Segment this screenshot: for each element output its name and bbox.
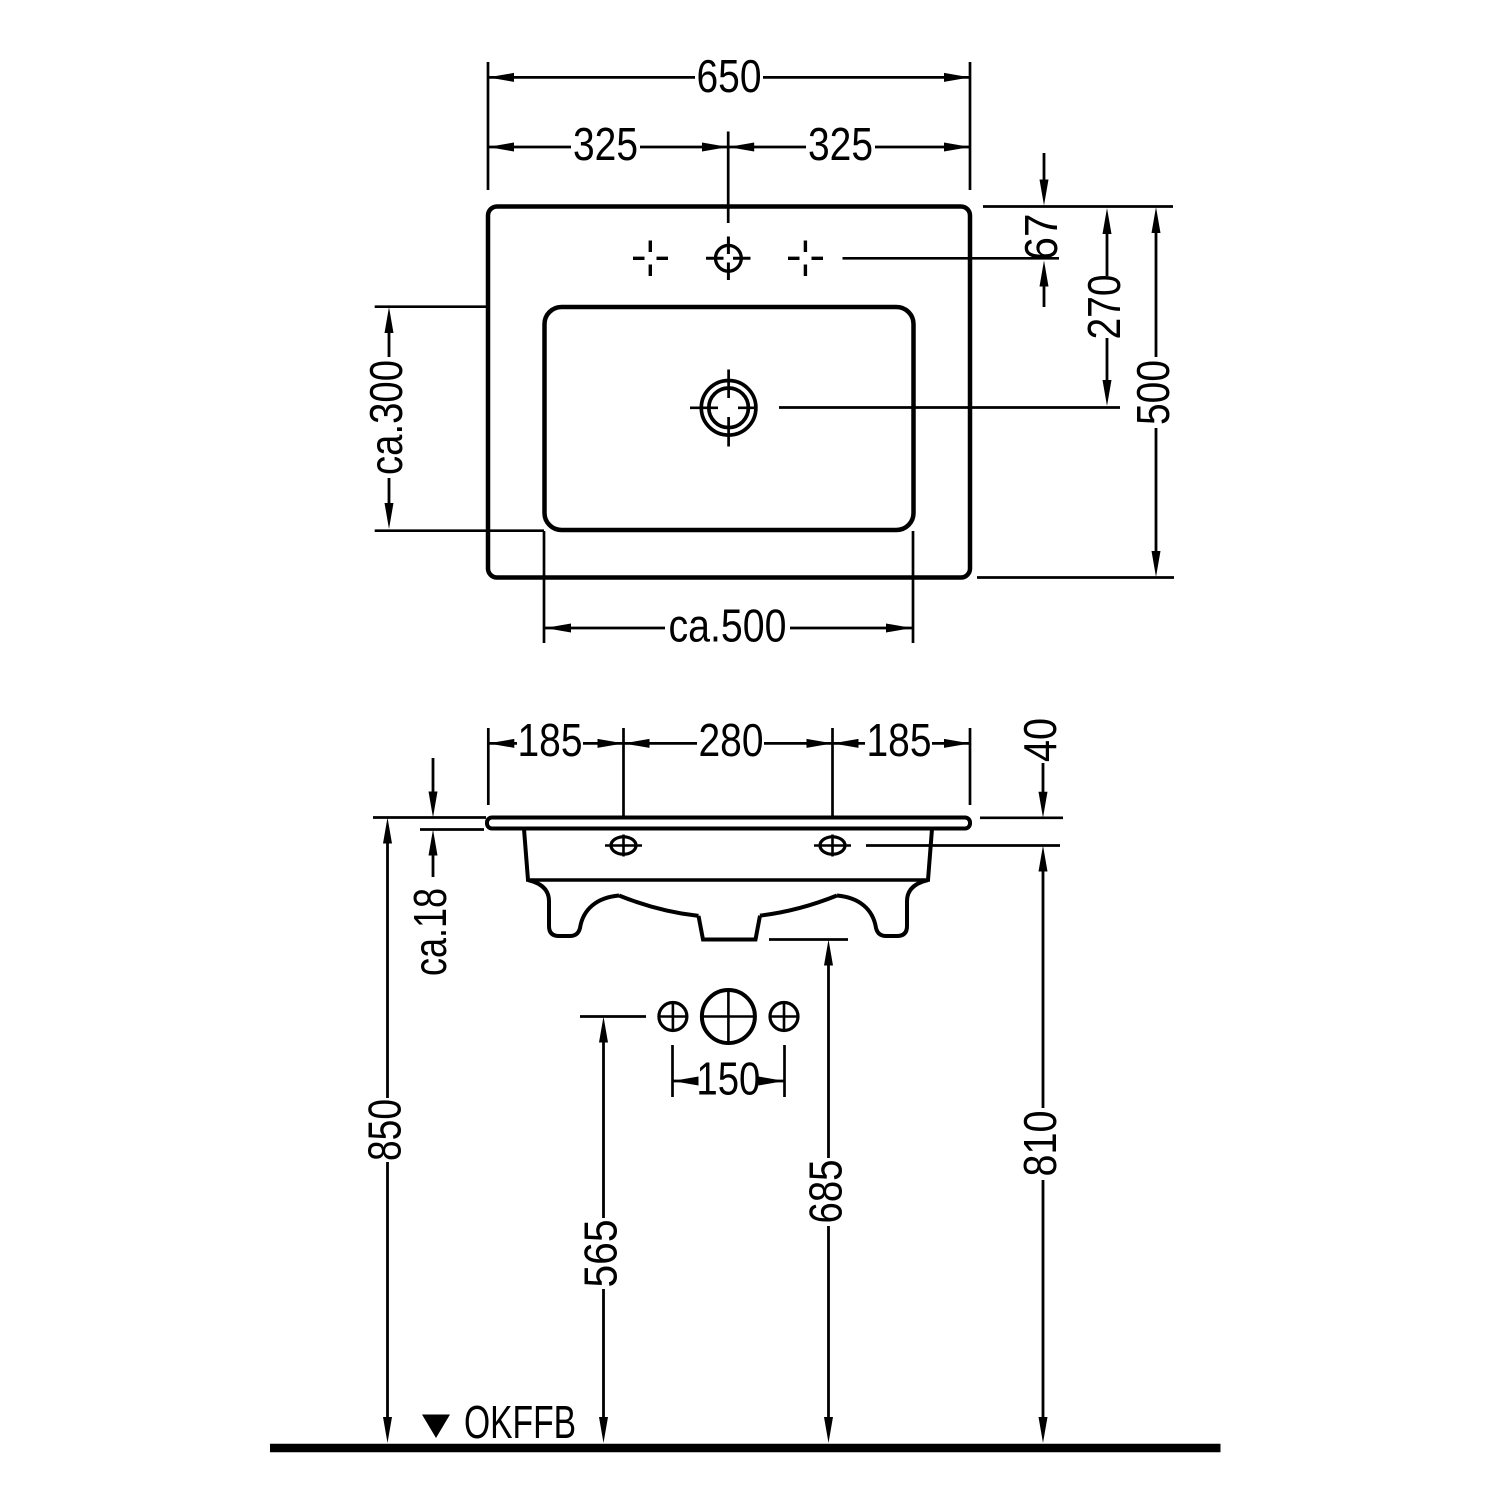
dimension ca.500 line: [545, 627, 912, 630]
extension line left for 650/325: [487, 62, 490, 190]
ca.500 left extension line: [543, 531, 546, 643]
extension lines for 185/280/185: [487, 728, 490, 805]
svg-text:40: 40: [1014, 718, 1066, 762]
svg-text:850: 850: [359, 1099, 411, 1161]
front view: underside concave curve right part: [760, 896, 837, 916]
leader line from right cross mark to 67 dim: [843, 257, 1060, 260]
svg-text:ca.18: ca.18: [404, 888, 456, 976]
dimension ca.18 upper arrow: [432, 758, 435, 796]
dimension 325 right line: [728, 146, 970, 149]
basin inner bowl (top view): [545, 307, 914, 530]
ca.300 bottom extension line: [375, 529, 544, 532]
dimension 650 right arrow: [944, 73, 970, 82]
front view: body sides: [524, 829, 932, 880]
leader line left of faucet group (565 ref): [580, 1015, 646, 1018]
svg-text:565: 565: [575, 1220, 627, 1288]
svg-text:325: 325: [573, 118, 638, 170]
dimension ca.18 lower arrow: [432, 852, 435, 877]
drain leader line to 270 dim: [779, 406, 1120, 409]
front view: body ledge line: [526, 878, 930, 882]
svg-text:150: 150: [696, 1053, 760, 1105]
extension line 685 ref: [769, 938, 848, 941]
extension line bottom right of basin (500 ref): [977, 576, 1174, 579]
dimension 850 vertical line: [386, 841, 389, 1419]
dimension 650 line: [488, 76, 970, 79]
center tick above faucet hole: [727, 132, 730, 224]
svg-text:185: 185: [867, 714, 932, 766]
dimension 650 left arrow: [488, 73, 514, 82]
dimension 67 lower arrow: [1043, 283, 1046, 307]
dimension 565 vertical line: [602, 1040, 605, 1419]
mounting hole leader line: [866, 844, 1060, 847]
extension line slab bottom left (ca.18 ref): [420, 828, 484, 831]
drain crosshair: [690, 370, 756, 447]
325 right arrows: [728, 143, 970, 152]
extension line right for 650/325: [969, 62, 972, 190]
dimension 685 vertical line: [827, 963, 830, 1419]
floor line: [270, 1444, 1221, 1453]
washbasin outer rect (top view): [488, 207, 970, 578]
dimension 40 upper arrow: [1042, 763, 1045, 796]
faucet drilling group: center circle: [702, 990, 755, 1043]
svg-text:67: 67: [1015, 214, 1067, 261]
left mounting hole: [611, 837, 636, 854]
right mounting hole: [820, 837, 845, 854]
faucet hole crosshair: [706, 237, 751, 281]
dimension 185/280/185 line: [488, 742, 970, 745]
svg-text:OKFFB: OKFFB: [464, 1396, 576, 1448]
dimension 325 left line: [488, 146, 728, 149]
faucet drilling left circle: [659, 1003, 687, 1031]
svg-text:ca.500: ca.500: [669, 600, 787, 652]
svg-text:650: 650: [697, 50, 762, 102]
svg-text:ca.300: ca.300: [360, 360, 412, 475]
185 left arrows: [488, 739, 623, 748]
500 arrows: [1152, 207, 1161, 577]
ca.500 right extension line: [912, 531, 915, 643]
front view: underside profile right foot: [837, 880, 928, 936]
svg-text:810: 810: [1014, 1111, 1066, 1177]
faucet hole circle: [716, 245, 742, 271]
svg-text:280: 280: [699, 714, 764, 766]
drain inner circle: [709, 388, 749, 428]
front view: slab (basin rim profile): [487, 818, 970, 829]
dimension 67 upper arrow: [1043, 153, 1046, 184]
extension lines for 150: [673, 1045, 785, 1097]
dimension 500 line: [1155, 230, 1158, 554]
right side-hole cross mark: [788, 241, 823, 277]
dimension 270 line: [1106, 231, 1109, 383]
drain outer circle: [701, 381, 756, 436]
dimension 150 line: [673, 1080, 785, 1083]
extension line slab top left (850/ca.18 ref): [373, 816, 486, 819]
front view: underside concave curve left part: [619, 896, 699, 916]
270 arrows: [1103, 208, 1112, 406]
OKFFB triangle: [422, 1415, 450, 1439]
front view: drain stub: [699, 916, 761, 940]
ca.500 arrows: [545, 624, 912, 633]
dimension 810 vertical line: [1042, 869, 1045, 1419]
150 arrows: [673, 1077, 785, 1086]
280 arrows: [624, 739, 833, 748]
faucet drilling right circle: [770, 1003, 798, 1031]
svg-text:325: 325: [808, 118, 873, 170]
extension line top right of basin (500/270/67 ref): [983, 205, 1173, 208]
dimension ca.300 line: [388, 333, 391, 504]
ca.300 top extension line: [375, 305, 490, 308]
svg-text:270: 270: [1078, 275, 1130, 340]
325 left arrows: [488, 143, 728, 152]
ca.300 arrows: [385, 307, 394, 529]
extension line slab top right (40 ref): [980, 816, 1063, 819]
left side-hole cross mark: [633, 241, 668, 277]
front view: underside profile left foot: [528, 880, 619, 936]
svg-text:185: 185: [518, 714, 583, 766]
svg-text:500: 500: [1127, 360, 1179, 425]
svg-text:685: 685: [800, 1160, 852, 1224]
185 right arrows: [833, 739, 971, 748]
